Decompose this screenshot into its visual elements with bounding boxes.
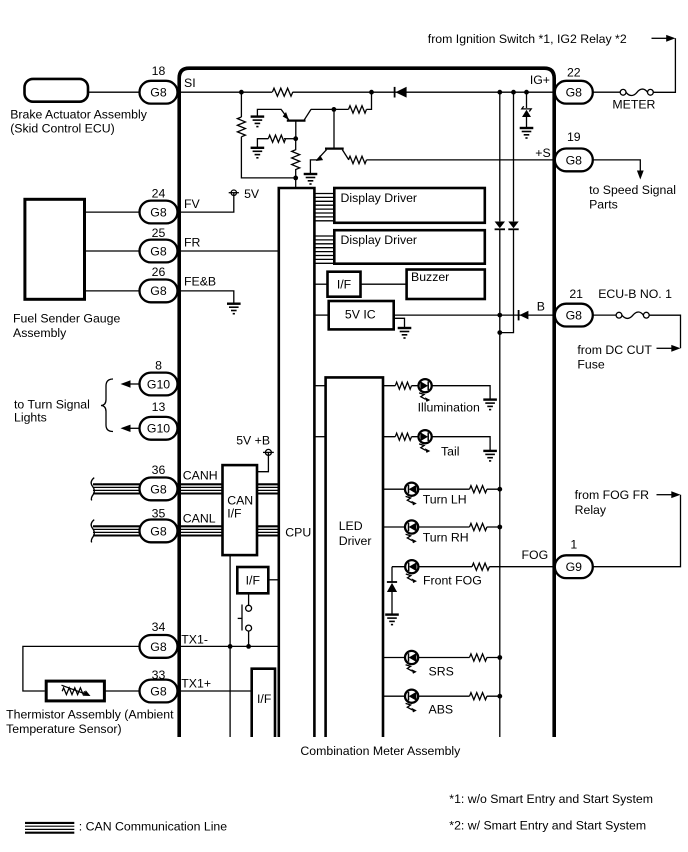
wire I/F to switch — [248, 593, 250, 605]
SRS row wire — [383, 657, 500, 659]
wire +S rail to pin 19 — [367, 159, 555, 161]
svg-text:1: 1 — [570, 537, 577, 551]
turn LH row wire — [383, 488, 500, 490]
svg-text:CANL: CANL — [183, 512, 216, 526]
power tap 5V — [229, 187, 260, 201]
node turn LH junction — [497, 487, 502, 492]
I/F box (buzzer interface) — [328, 272, 361, 297]
LED turn RH — [405, 520, 418, 543]
connector pin 26 G8 (FE&B) — [140, 265, 178, 302]
svg-text:G8: G8 — [150, 205, 167, 219]
svg-text:Turn LH: Turn LH — [423, 492, 467, 506]
wire Q2 emitter to ground — [310, 160, 317, 174]
svg-text:G8: G8 — [150, 284, 167, 298]
wire CAN I/F down to TX1- rail — [229, 555, 231, 737]
node IG+ junction 2 — [511, 90, 516, 95]
svg-text:G10: G10 — [147, 422, 170, 436]
resistor R1 on SI rail — [272, 86, 293, 98]
svg-text:: CAN Communication Line: : CAN Communication Line — [79, 819, 227, 833]
wire 5V IC to ground — [394, 318, 405, 327]
svg-text:Assembly: Assembly — [13, 326, 67, 340]
wire I/F to buzzer — [361, 283, 407, 285]
to turn signal lights label — [14, 398, 90, 425]
svg-text:CAN: CAN — [227, 493, 253, 507]
svg-text:LED: LED — [339, 519, 363, 533]
diode on feed line 1 (pointing down) — [495, 222, 505, 230]
svg-text:21: 21 — [569, 287, 583, 301]
LED tail — [419, 430, 432, 453]
LED illumination — [419, 379, 432, 402]
svg-text:*1: w/o Smart Entry and Start: *1: w/o Smart Entry and Start System — [449, 792, 653, 806]
wire TX1- to CPU — [178, 645, 279, 647]
connector pin 36 G8 (CANH) — [140, 463, 178, 500]
svg-text:G10: G10 — [147, 377, 170, 391]
bus lines CPU to display driver 2 — [314, 236, 334, 263]
svg-text:+S: +S — [535, 146, 550, 160]
svg-text:G8: G8 — [150, 640, 167, 654]
resistor R4 horizontal — [268, 135, 285, 142]
svg-text:Front FOG: Front FOG — [423, 573, 482, 587]
LED SRS — [405, 651, 418, 674]
node Q1 base junction — [293, 136, 298, 141]
svg-text:5V +B: 5V +B — [236, 434, 270, 448]
svg-text:Display Driver: Display Driver — [341, 233, 418, 247]
wire FR to CPU — [178, 250, 279, 252]
node IG+ junction 3 — [524, 90, 529, 95]
svg-text:G8: G8 — [566, 86, 583, 100]
svg-text:from DC CUT: from DC CUT — [577, 343, 652, 357]
svg-text:Thermistor Assembly (Ambient: Thermistor Assembly (Ambient — [6, 708, 174, 722]
ground Q1 emitter — [251, 117, 265, 127]
node SI junction — [239, 90, 244, 95]
connector pin 13 G10 (LR) — [140, 400, 178, 440]
wire fuel FE&B — [85, 290, 141, 292]
5V IC box — [329, 301, 394, 329]
svg-text:Tail: Tail — [441, 444, 459, 458]
wire R3 to top rail — [367, 92, 372, 109]
wire vertical feed line 1 — [499, 92, 501, 737]
connector pin 24 G8 (FV) — [140, 187, 178, 224]
arrow from ignition switch — [652, 35, 676, 42]
svg-text:26: 26 — [152, 265, 166, 279]
node feed merge — [497, 330, 502, 335]
wire R4 left to ground — [257, 139, 268, 148]
resistor ABS — [470, 693, 487, 700]
svg-text:(Skid Control ECU): (Skid Control ECU) — [10, 122, 115, 136]
label to speed signal parts — [589, 183, 676, 212]
svg-text:G8: G8 — [566, 309, 583, 323]
svg-text:I/F: I/F — [257, 692, 272, 706]
svg-text:TX1+: TX1+ — [181, 677, 211, 691]
power tap 5V +B — [236, 434, 274, 472]
fuel sender gauge assembly box — [13, 199, 120, 340]
arrow to speed signal — [637, 171, 644, 180]
connector pin 35 G8 (CANL) — [140, 507, 178, 543]
wire CPU to 5V IC — [314, 314, 328, 316]
connector pin 33 G8 (TX1+) — [140, 668, 178, 702]
svg-text:FV: FV — [184, 197, 201, 211]
svg-text:TX1-: TX1- — [181, 632, 208, 646]
svg-text:Buzzer: Buzzer — [411, 270, 449, 284]
connector pin 34 G8 (TX1-) — [140, 620, 178, 658]
node collector rail junction top — [369, 90, 374, 95]
ground FOG diode — [385, 615, 399, 625]
node turn RH junction — [497, 525, 502, 530]
svg-text:5V: 5V — [244, 187, 260, 201]
svg-text:Fuel Sender Gauge: Fuel Sender Gauge — [13, 312, 120, 326]
LED front FOG — [405, 560, 418, 583]
legend CAN communication line — [25, 819, 227, 833]
node Q1 collector junction — [332, 107, 337, 112]
svg-text:Illumination: Illumination — [418, 401, 480, 415]
CAN bus CANH internal — [257, 484, 279, 493]
CAN I/F box — [223, 465, 258, 555]
wire CPU to LED driver 2 — [314, 436, 325, 438]
wire pin 1 to FOG relay source — [593, 495, 681, 567]
svg-text:22: 22 — [567, 66, 581, 80]
wire METER fuse to ignition source — [653, 38, 675, 92]
svg-text:Fuse: Fuse — [577, 357, 604, 371]
diode on B line (cathode left) — [519, 310, 529, 320]
LED ABS — [405, 690, 418, 713]
svg-text:to Speed Signal: to Speed Signal — [589, 183, 676, 197]
node IG+ junction 1 — [497, 90, 502, 95]
wire thermistor to TX1+ — [104, 690, 140, 692]
front FOG row wire — [392, 566, 554, 568]
connector pin 8 G10 (LL) — [140, 358, 178, 395]
svg-text:33: 33 — [152, 668, 166, 682]
label from FOG FR relay — [575, 488, 650, 517]
svg-text:34: 34 — [152, 620, 166, 634]
wire brake to SI pin — [88, 91, 141, 93]
svg-text:13: 13 — [152, 400, 166, 414]
CANL bus break marks — [91, 520, 94, 543]
ground illumination — [483, 400, 497, 410]
wire Q1 emitter to ground — [257, 109, 281, 116]
wire down from SI junction — [240, 92, 242, 117]
svg-text:I/F: I/F — [227, 506, 242, 520]
svg-text:19: 19 — [567, 130, 581, 144]
svg-text:35: 35 — [152, 507, 166, 521]
display driver 1 box — [334, 188, 485, 223]
wire fuel FV — [85, 211, 141, 213]
resistor front FOG — [472, 563, 489, 570]
svg-text:ECU-B NO. 1: ECU-B NO. 1 — [598, 287, 672, 301]
connector pin 1 G9 (FOG) — [555, 537, 593, 578]
svg-text:B: B — [537, 299, 545, 313]
wire R4 right to base node — [284, 138, 296, 140]
buzzer box — [407, 270, 485, 300]
svg-text:8: 8 — [155, 358, 162, 372]
svg-text:Brake Actuator Assembly: Brake Actuator Assembly — [10, 107, 148, 121]
wire FV to 5V tap — [178, 193, 234, 212]
wire CPU to I/F — [314, 283, 327, 285]
LED driver box (open bottom) — [326, 377, 383, 737]
ground R4 — [251, 148, 265, 158]
wire pin 21 to ECU-B fuse — [593, 314, 616, 316]
wire Q1 collector rail — [311, 108, 349, 110]
node TX1- junction A — [228, 644, 233, 649]
arrow from FOG FR relay — [657, 491, 681, 498]
diode FOG (cathode up) — [387, 582, 397, 614]
wire vertical feed line 2 — [500, 92, 514, 332]
transistor Q1 (PNP) — [281, 109, 311, 138]
svg-text:Display Driver: Display Driver — [341, 191, 418, 205]
svg-text:Lights: Lights — [14, 411, 47, 425]
brake actuator assembly box — [10, 79, 148, 136]
connector pin 21 G8 (B) — [555, 287, 593, 326]
svg-text:*2: w/ Smart Entry and Start S: *2: w/ Smart Entry and Start System — [449, 819, 646, 833]
ground 5V IC — [398, 328, 412, 338]
wire pin 22 to METER fuse — [593, 91, 620, 93]
svg-text:G9: G9 — [566, 560, 583, 574]
resistor tail — [395, 433, 411, 440]
illumination row wire — [383, 386, 490, 399]
zener diode on IG+ — [522, 92, 531, 127]
wire I/F to CPU — [268, 579, 279, 581]
svg-text:Parts: Parts — [589, 198, 618, 212]
svg-text:METER: METER — [612, 98, 655, 112]
svg-text:to Turn Signal: to Turn Signal — [14, 398, 90, 412]
tail row wire — [383, 437, 490, 451]
connector pin 22 G8 (IG+) — [555, 66, 593, 104]
svg-text:G8: G8 — [150, 86, 167, 100]
node ABS junction — [497, 694, 502, 699]
svg-text:18: 18 — [152, 64, 166, 78]
resistor turn RH — [470, 523, 487, 530]
node SRS junction — [497, 655, 502, 660]
CPU box (open bottom) — [279, 188, 315, 737]
resistor R5 vertical — [292, 139, 300, 178]
svg-text:G8: G8 — [150, 244, 167, 258]
CAN bus CANL internal — [257, 526, 279, 535]
svg-text:G8: G8 — [566, 153, 583, 167]
label from DC CUT fuse — [577, 343, 652, 372]
node TX1- junction B — [246, 644, 251, 649]
svg-text:I/F: I/F — [246, 574, 261, 588]
svg-text:from Ignition Switch *1, IG2 R: from Ignition Switch *1, IG2 Relay *2 — [428, 32, 627, 46]
I/F box (TX upper) — [237, 567, 268, 593]
turn RH row wire — [383, 526, 500, 528]
resistor SRS — [470, 654, 487, 661]
svg-text:from FOG FR: from FOG FR — [575, 488, 650, 502]
wire TX1+ to I/F — [178, 690, 252, 692]
wire fuel FR — [85, 250, 141, 252]
connector pin 25 G8 (FR) — [140, 226, 178, 263]
svg-text:ABS: ABS — [429, 702, 454, 716]
ABS row wire — [383, 695, 500, 697]
connector pin 18 G8 (SI) — [140, 64, 178, 104]
svg-text:Relay: Relay — [575, 503, 607, 517]
node B junction — [497, 313, 502, 318]
wire R2 to bottom rail — [241, 137, 295, 178]
resistor R2 vertical — [237, 117, 245, 137]
CAN bus CANL external — [93, 526, 223, 535]
svg-text:IG+: IG+ — [530, 73, 550, 87]
wire LR arrow — [121, 425, 141, 432]
svg-text:G8: G8 — [150, 482, 167, 496]
I/F box (TX lower, open bottom) — [252, 669, 275, 737]
transistor Q2 (NPN) — [316, 109, 349, 161]
connector pin 19 G8 (+S) — [555, 130, 593, 171]
bus lines CPU to display driver 1 — [314, 194, 334, 221]
fuse ECU-B NO. 1 — [616, 312, 649, 318]
arrow from DC CUT fuse — [657, 345, 681, 352]
ground zener — [520, 128, 534, 138]
svg-text:FOG: FOG — [522, 548, 549, 562]
svg-text:36: 36 — [152, 463, 166, 477]
svg-text:CPU: CPU — [285, 525, 311, 539]
ground Q2 emitter — [304, 174, 318, 184]
wire B from 5V IC to pin 21 — [394, 314, 555, 316]
svg-text:FE&B: FE&B — [184, 274, 216, 288]
svg-text:I/F: I/F — [337, 278, 352, 292]
fuse METER — [612, 89, 655, 112]
wire switch to TX1- rail — [248, 631, 250, 646]
svg-text:Driver: Driver — [339, 534, 372, 548]
svg-text:5V IC: 5V IC — [345, 307, 376, 321]
LED turn LH — [405, 483, 418, 506]
CAN bus CANH external — [93, 484, 223, 493]
CANH bus break marks — [91, 478, 94, 501]
brace for turn signal arrows — [101, 379, 113, 432]
svg-text:Turn RH: Turn RH — [423, 530, 469, 544]
display driver 2 box — [334, 230, 485, 264]
node bottom rail junction — [293, 176, 298, 181]
thermistor assembly box — [6, 681, 174, 736]
diode on feed line 2 (pointing down) — [508, 222, 518, 230]
svg-text:CANH: CANH — [183, 469, 218, 483]
wire pin 19 to speed signal — [593, 160, 641, 172]
wire LL arrow — [121, 380, 141, 387]
svg-text:G8: G8 — [150, 524, 167, 538]
ground FE&B — [227, 304, 241, 314]
wire CPU to LED driver 1 — [314, 385, 325, 387]
svg-text:FR: FR — [184, 236, 201, 250]
resistor turn LH — [470, 486, 487, 493]
wire bottom junction to CPU — [295, 178, 297, 188]
svg-text:Combination Meter Assembly: Combination Meter Assembly — [300, 744, 461, 758]
svg-text:Temperature Sensor): Temperature Sensor) — [6, 722, 122, 736]
resistor R3 — [349, 106, 367, 113]
diode D1 on rail (cathode left) — [395, 87, 407, 98]
svg-text:SRS: SRS — [429, 664, 454, 678]
ground tail — [483, 451, 497, 461]
resistor illumination — [395, 382, 411, 389]
wire SI to IG+ rail — [178, 91, 555, 93]
wire ECU-B fuse to DC CUT source — [649, 315, 680, 348]
svg-text:25: 25 — [152, 226, 166, 240]
svg-text:24: 24 — [152, 187, 166, 201]
wire FE&B to ground — [178, 291, 234, 303]
resistor R6 — [349, 156, 367, 163]
svg-text:G8: G8 — [150, 684, 167, 698]
wire FOG branch down — [391, 567, 393, 582]
wire TX1- external — [23, 646, 141, 691]
switch S1 — [238, 605, 252, 632]
combination meter assembly box (open bottom) — [179, 68, 554, 758]
svg-text:SI: SI — [184, 76, 196, 90]
